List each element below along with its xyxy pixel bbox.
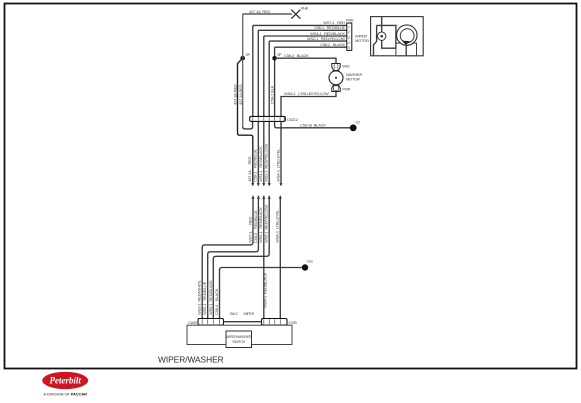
svg-text:WS5-1 RED/BLUE: WS5-1 RED/BLUE — [202, 281, 207, 315]
splice SP2 — [272, 53, 282, 61]
svg-text:MOTOR: MOTOR — [346, 77, 360, 82]
svg-text:427 1A RED: 427 1A RED — [249, 9, 270, 14]
svg-text:PWR: PWR — [343, 88, 351, 92]
svg-text:4: 4 — [348, 41, 350, 45]
svg-text:WS4-1 RED/BLACK: WS4-1 RED/BLACK — [258, 146, 263, 182]
svg-text:427 1B RED: 427 1B RED — [232, 84, 237, 105]
svg-text:3: 3 — [348, 36, 350, 40]
svg-text:C58-2 BLACK: C58-2 BLACK — [320, 42, 345, 47]
svg-text:2: 2 — [348, 30, 350, 34]
ground stud G11 — [302, 260, 313, 271]
connector CA/B left — [188, 319, 224, 326]
harness break arrows up — [251, 196, 282, 199]
svg-text:C58-4 BLACK: C58-4 BLACK — [214, 288, 219, 315]
svg-text:A DIVISION OF PACCAR: A DIVISION OF PACCAR — [43, 393, 87, 397]
wire C58-16 BLACK to ground stud — [275, 122, 350, 128]
wiper washer switch inner box — [226, 331, 252, 348]
wire sw pin3 staircase — [213, 196, 269, 319]
wire 427 1A RED to fuse — [243, 9, 292, 14]
svg-text:C58-16 BLACK: C58-16 BLACK — [300, 122, 326, 127]
svg-text:WS2-1 RED/YELLOW: WS2-1 RED/YELLOW — [264, 143, 269, 182]
svg-text:WS6-1 RED/BLACK: WS6-1 RED/BLACK — [208, 280, 213, 315]
svg-text:WSA-1 RED/BLACK: WSA-1 RED/BLACK — [262, 272, 267, 308]
wire WS4-1 RED/BLACK — [264, 31, 347, 117]
wire WS7-1 RED — [253, 20, 347, 116]
svg-text:WIPER: WIPER — [244, 312, 255, 316]
connector C2/B right — [262, 319, 298, 326]
svg-text:G11: G11 — [307, 260, 313, 264]
wire C58-1 RED/BLUE — [258, 25, 347, 116]
svg-text:C58-2 BLK: C58-2 BLK — [270, 85, 275, 104]
svg-text:437 1A RED: 437 1A RED — [247, 156, 252, 182]
washer motor M1 — [329, 71, 363, 85]
svg-text:C58-3 BLACK: C58-3 BLACK — [284, 53, 309, 58]
svg-text:C58-1 RED/BLUE: C58-1 RED/BLUE — [253, 149, 258, 182]
svg-text:MOTOR: MOTOR — [355, 38, 369, 43]
wiper motor box U1 — [371, 17, 424, 56]
svg-text:SWITCH: SWITCH — [232, 340, 245, 344]
svg-text:WSA-1 LTBLU/YEL: WSA-1 LTBLU/YEL — [275, 148, 280, 182]
wire branch SP1 down (437 1A RED) — [238, 58, 253, 183]
svg-text:WSA-1 LTBLUE/YELLOW: WSA-1 LTBLUE/YELLOW — [284, 91, 329, 96]
svg-text:WS7-1 RED: WS7-1 RED — [247, 217, 252, 243]
wire to right conn pin4 — [279, 196, 281, 319]
wire pin4 down — [268, 122, 270, 184]
wiper washer switch box S1 — [187, 325, 292, 344]
svg-text:G2: G2 — [356, 121, 361, 125]
svg-text:WAC: WAC — [343, 65, 351, 69]
wire to right conn pin1 — [263, 196, 265, 319]
Peterbilt logo — [42, 372, 88, 397]
svg-text:WSA-1 LTBLU/YEL: WSA-1 LTBLU/YEL — [275, 209, 280, 243]
splice SP1 — [240, 53, 250, 60]
svg-text:CA/B: CA/B — [188, 320, 197, 325]
svg-text:PWR: PWR — [346, 19, 354, 23]
wire WS2-1 RED/YELLOW — [269, 36, 347, 117]
svg-text:WIPER/WASHER: WIPER/WASHER — [158, 355, 224, 365]
harness break arrows down — [251, 183, 282, 186]
svg-text:1: 1 — [348, 25, 350, 29]
wire bus to C6212 pin1 — [243, 122, 253, 129]
wire sw pin1 staircase — [202, 196, 253, 319]
wire pin3 down — [263, 122, 265, 184]
wire WSA-1 LTBLUE/YELLOW — [281, 91, 336, 116]
svg-text:SW-C: SW-C — [230, 312, 239, 316]
svg-text:C2/B: C2/B — [289, 320, 298, 325]
svg-text:WS6-1 RED/BLACK: WS6-1 RED/BLACK — [258, 207, 263, 243]
connector wiper motor PWR — [346, 19, 354, 51]
wire between connectors — [224, 321, 262, 323]
svg-text:RHB: RHB — [301, 7, 309, 11]
wire sw pin2 staircase — [208, 196, 259, 319]
svg-text:WS3-1 RED/WHITE: WS3-1 RED/WHITE — [197, 280, 202, 315]
label WIPER MOTOR — [355, 34, 369, 44]
wire pin2 down — [257, 122, 259, 184]
ground stud G2 — [350, 121, 360, 132]
svg-text:437 1A RED: 437 1A RED — [238, 84, 243, 105]
svg-text:5: 5 — [348, 46, 350, 50]
svg-text:WS2-1 RED/YELLOW: WS2-1 RED/YELLOW — [307, 36, 346, 41]
wire ground sw pin5 — [220, 268, 302, 319]
connector C6212 — [250, 116, 299, 122]
svg-text:C58-1 RED/BLUE: C58-1 RED/BLUE — [314, 25, 346, 30]
svg-text:C6212: C6212 — [287, 117, 299, 122]
svg-text:WIPER/WASHER: WIPER/WASHER — [226, 335, 252, 339]
svg-text:WS5-1 RED/YELLOW: WS5-1 RED/YELLOW — [264, 204, 269, 243]
wire C58-3 BLACK to washer — [275, 53, 336, 64]
svg-text:Peterbilt: Peterbilt — [49, 376, 81, 386]
fuse RHB — [291, 7, 308, 19]
washer motor connector WAC — [332, 64, 351, 71]
washer motor connector PWR — [332, 85, 351, 92]
wire pin7 washer down — [280, 122, 282, 184]
wire C58-2 BLACK — [275, 42, 347, 116]
